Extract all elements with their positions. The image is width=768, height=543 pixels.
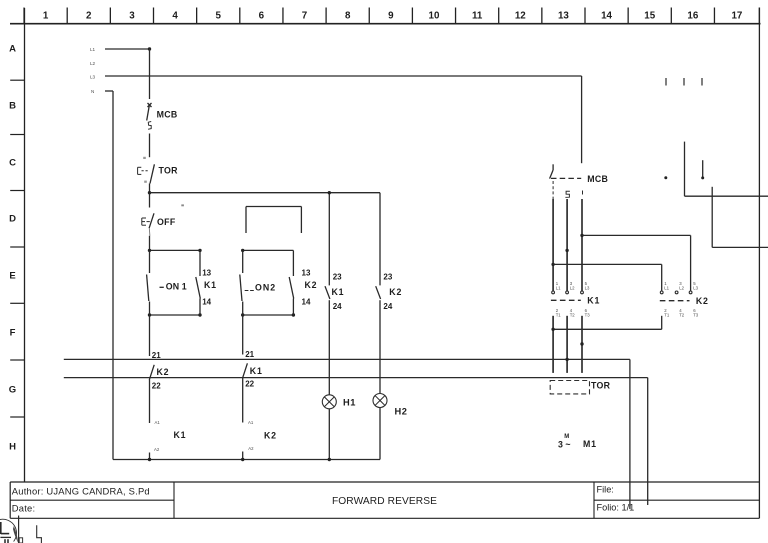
svg-text:1: 1 (43, 11, 49, 22)
svg-text:E: E (9, 270, 15, 281)
svg-text:H2: H2 (395, 407, 408, 417)
svg-text:L1: L1 (90, 47, 96, 52)
svg-text:K1: K1 (332, 287, 345, 297)
svg-text:K2: K2 (389, 287, 402, 297)
svg-text:L3: L3 (90, 75, 96, 80)
svg-text:T1: T1 (664, 312, 670, 317)
svg-text:24: 24 (383, 302, 392, 311)
svg-text:T1: T1 (556, 312, 562, 317)
svg-text:Date:: Date: (12, 503, 36, 514)
svg-text:5: 5 (215, 11, 221, 22)
svg-text:14: 14 (302, 298, 311, 307)
svg-text:K1: K1 (174, 430, 187, 440)
svg-text:L3: L3 (585, 285, 590, 290)
svg-text:G: G (9, 385, 16, 396)
svg-text:21: 21 (245, 350, 254, 359)
svg-text:K2: K2 (157, 367, 170, 377)
svg-text:T3: T3 (585, 312, 591, 317)
svg-text:9: 9 (388, 11, 394, 22)
svg-text:T3: T3 (693, 312, 699, 317)
svg-text:12: 12 (515, 11, 526, 22)
svg-text:MCB: MCB (587, 174, 608, 184)
svg-text:K2: K2 (696, 296, 709, 306)
svg-text:L2: L2 (570, 285, 575, 290)
svg-text:N: N (91, 89, 94, 94)
svg-text:L2: L2 (679, 285, 684, 290)
svg-text:21: 21 (152, 351, 161, 360)
svg-text:L2: L2 (90, 61, 96, 66)
svg-text:C: C (9, 157, 16, 168)
svg-text:L1: L1 (556, 285, 561, 290)
svg-text:7: 7 (302, 11, 308, 22)
svg-text:K1: K1 (587, 296, 600, 306)
svg-text:ON2: ON2 (255, 282, 276, 292)
svg-text:ON 1: ON 1 (166, 282, 187, 292)
svg-text:6: 6 (259, 11, 265, 22)
svg-text:F: F (10, 327, 16, 338)
svg-text:T2: T2 (570, 312, 576, 317)
svg-text:23: 23 (383, 273, 392, 282)
svg-text:K1: K1 (250, 366, 263, 376)
svg-text:A: A (9, 44, 16, 55)
svg-text:A1: A1 (248, 420, 254, 425)
svg-text:3: 3 (129, 11, 135, 22)
svg-text:23: 23 (333, 273, 342, 282)
svg-text:22: 22 (152, 382, 161, 391)
svg-text:13: 13 (302, 269, 311, 278)
svg-text:22: 22 (245, 379, 254, 388)
svg-text:FORWARD REVERSE: FORWARD REVERSE (332, 496, 437, 507)
svg-text:15: 15 (644, 11, 655, 22)
svg-text:8: 8 (345, 11, 351, 22)
svg-text:11: 11 (472, 11, 483, 22)
svg-text:M1: M1 (583, 439, 597, 449)
svg-text:Folio: 1/1: Folio: 1/1 (597, 503, 635, 513)
svg-text:MCB: MCB (157, 110, 178, 120)
svg-text:4: 4 (172, 11, 178, 22)
svg-text:K2: K2 (264, 431, 277, 441)
svg-text:TOR: TOR (591, 381, 611, 391)
svg-text:T2: T2 (679, 312, 685, 317)
svg-text:2: 2 (86, 11, 92, 22)
svg-text:K1: K1 (204, 280, 217, 290)
svg-text:D: D (9, 214, 16, 225)
svg-text:A2: A2 (154, 447, 160, 452)
svg-text:10: 10 (429, 11, 440, 22)
svg-text:3 ~: 3 ~ (558, 440, 570, 450)
svg-text:File:: File: (597, 484, 614, 494)
svg-text:H: H (9, 442, 16, 453)
svg-text:B: B (9, 101, 16, 112)
svg-text:A1: A1 (155, 420, 161, 425)
svg-text:H1: H1 (343, 398, 356, 408)
svg-text:K2: K2 (305, 280, 318, 290)
svg-text:A2: A2 (248, 446, 254, 451)
svg-text:Author: UJANG CANDRA, S.Pd: Author: UJANG CANDRA, S.Pd (12, 486, 150, 497)
svg-text:L1: L1 (664, 285, 669, 290)
svg-text:17: 17 (731, 11, 742, 22)
svg-text:13: 13 (558, 11, 569, 22)
svg-text:24: 24 (333, 302, 342, 311)
svg-text:TOR: TOR (159, 165, 179, 175)
svg-text:OFF: OFF (157, 217, 176, 227)
svg-text:14: 14 (202, 298, 211, 307)
svg-text:14: 14 (601, 11, 612, 22)
svg-text:16: 16 (687, 11, 698, 22)
svg-text:13: 13 (202, 269, 211, 278)
svg-text:L3: L3 (693, 285, 698, 290)
